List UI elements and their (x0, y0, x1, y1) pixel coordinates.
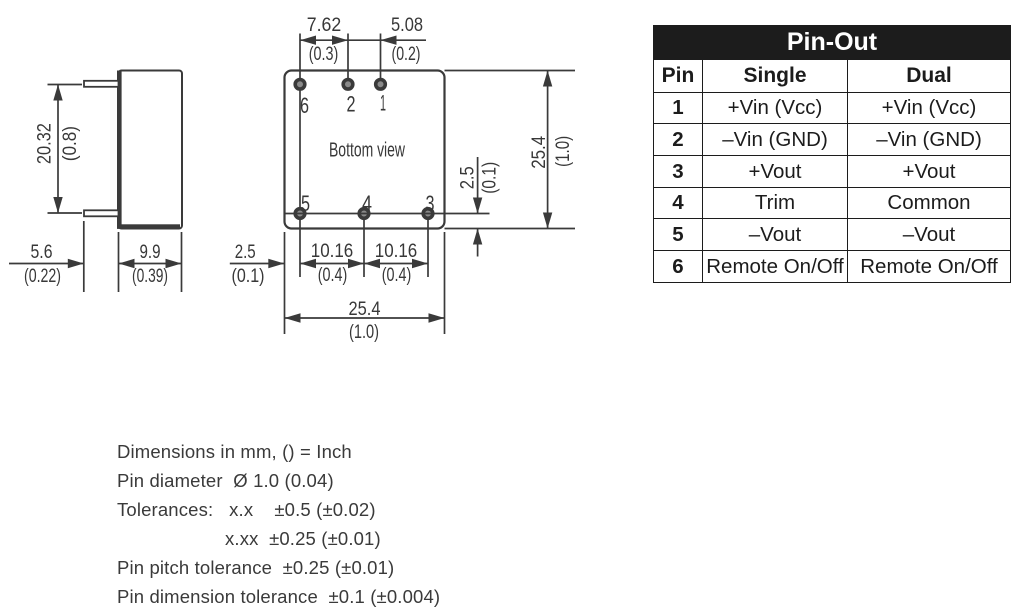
dim 7.62 arrow left (300, 36, 316, 45)
svg-text:5.08: 5.08 (391, 15, 423, 36)
dim 10.16 second arrow right (412, 259, 428, 268)
pin 3 (423, 209, 433, 219)
svg-text:10.16: 10.16 (375, 241, 418, 262)
dim 20.32 line (57, 85, 59, 214)
top dim extension line pin2 (347, 34, 349, 85)
svg-text:(0.8): (0.8) (60, 126, 81, 161)
svg-text:7.62: 7.62 (307, 15, 342, 36)
dim 7.62 arrow right (332, 36, 348, 45)
dim 9.9 arrow right (166, 259, 182, 268)
dim 5.08 arrow (381, 36, 397, 45)
svg-text:25.4: 25.4 (349, 299, 381, 320)
svg-text:2: 2 (347, 92, 356, 117)
svg-text:4: 4 (362, 191, 372, 216)
dim 25.4 right arrow down (543, 213, 552, 229)
dim 2.5 bottom arrow (268, 259, 284, 268)
dim 9.9 line (119, 263, 182, 265)
notes text block (117, 441, 352, 463)
body top edge extension (445, 70, 576, 72)
dim 20.32 arrow down (53, 197, 62, 213)
pin 1 (376, 80, 386, 90)
side view body (117, 71, 182, 229)
svg-text:(0.2): (0.2) (392, 44, 421, 65)
dim 2.5 right arrow down (473, 198, 482, 214)
svg-text:(0.4): (0.4) (382, 265, 412, 286)
top dim extension line pin1 (380, 34, 382, 85)
svg-text:25.4: 25.4 (529, 135, 550, 168)
dim 10.16 first arrow right (348, 259, 364, 268)
svg-text:(0.22): (0.22) (24, 266, 61, 287)
bottom extension lines body edges (285, 232, 445, 334)
svg-text:(0.3): (0.3) (309, 44, 339, 65)
dim 10.16 second line (364, 263, 428, 265)
dim 2.5 right arrow up (473, 229, 482, 245)
pin 6 (295, 80, 305, 90)
svg-text:9.9: 9.9 (140, 242, 161, 263)
Pin-Out table (653, 25, 1011, 283)
top dim extension line pin6-pin5 column (299, 34, 301, 278)
dim 20.32 arrow up (53, 85, 62, 101)
svg-text:1: 1 (380, 91, 386, 116)
pin 2 (343, 80, 353, 90)
side view bottom pin (84, 210, 119, 216)
dim 10.16 second arrow left (364, 259, 380, 268)
svg-text:20.32: 20.32 (35, 123, 56, 164)
side view top pin (84, 81, 119, 87)
svg-text:(0.39): (0.39) (132, 266, 168, 287)
svg-text:5.6: 5.6 (31, 242, 53, 263)
svg-text:10.16: 10.16 (311, 241, 354, 262)
svg-text:(0.1): (0.1) (480, 162, 501, 194)
dim 25.4 right line (547, 71, 549, 229)
dim 5.6/9.9 extension lines (84, 221, 182, 292)
bottom extension lines pin4 pin3 (364, 219, 428, 277)
pin row line (285, 213, 490, 215)
dim 7.62/5.08 line (300, 39, 426, 41)
dim 10.16 first arrow left (300, 259, 316, 268)
dim 25.4 bottom arrow right (429, 313, 445, 322)
body bottom edge extension (445, 228, 576, 230)
svg-text:(1.0): (1.0) (553, 136, 574, 167)
pin 4 (359, 209, 369, 219)
svg-text:6: 6 (300, 93, 309, 118)
pin 5 (295, 209, 305, 219)
svg-text:5: 5 (301, 191, 310, 216)
dim 25.4 bottom line (285, 317, 445, 319)
svg-text:2.5: 2.5 (235, 242, 256, 263)
dim 10.16 first line (300, 263, 364, 265)
svg-text:3: 3 (426, 191, 435, 216)
dim 20.32 extension lines (48, 85, 83, 214)
svg-text:Bottom view: Bottom view (329, 140, 405, 162)
svg-text:2.5: 2.5 (458, 166, 479, 189)
dim 2.5 right lower line (477, 229, 479, 257)
svg-text:(0.1): (0.1) (232, 266, 265, 287)
dim 9.9 arrow left (119, 259, 135, 268)
svg-text:(0.4): (0.4) (318, 265, 348, 286)
dim 5.6 leader line (9, 263, 84, 265)
dim 2.5 bottom leader (230, 263, 284, 265)
bottom view body (285, 71, 445, 229)
dim 25.4 bottom arrow left (285, 313, 301, 322)
dim 2.5 right upper line (477, 157, 479, 214)
dim 25.4 right arrow up (543, 71, 552, 87)
svg-text:(1.0): (1.0) (349, 322, 379, 343)
dim 5.6 arrow (68, 259, 84, 268)
